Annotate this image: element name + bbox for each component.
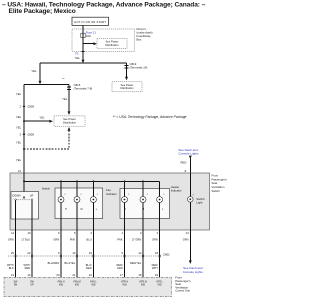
svg-text:8: 8 — [185, 169, 187, 173]
label Switch Light — [196, 197, 205, 205]
wire heater2 to box edge — [142, 217, 144, 230]
svg-text:(Terminals 7-8): (Terminals 7-8) — [74, 87, 93, 91]
wire W9 to dash lights — [189, 230, 192, 264]
svg-text:UP: UP — [30, 284, 34, 286]
svg-text:10A: 10A — [86, 34, 91, 38]
svg-text:C808: C808 — [27, 105, 34, 109]
fan bulb 2 — [74, 180, 83, 217]
svg-text:DOWN: DOWN — [13, 194, 21, 197]
svg-text:3: 3 — [157, 231, 159, 235]
svg-text:BLU/GRN: BLU/GRN — [48, 261, 60, 265]
label Fan Indicator — [106, 188, 117, 196]
wire fan1 to box edge — [60, 217, 62, 230]
svg-text:20: 20 — [56, 273, 60, 277]
label C815 (Terminals 7-8) — [74, 83, 93, 91]
svg-text:19: 19 — [155, 273, 159, 277]
svg-text:11: 11 — [11, 231, 14, 235]
switch light bulb — [188, 173, 195, 230]
svg-text:3: 3 — [19, 132, 21, 136]
connector C813 ticks — [125, 66, 129, 68]
arrow into power distribution — [125, 77, 128, 81]
svg-text:C808: C808 — [27, 132, 34, 136]
svg-text:WHT: WHT — [152, 266, 158, 270]
internal supply rail — [24, 180, 160, 182]
fan bulb 3 — [90, 180, 98, 217]
wire colour row 1 — [8, 238, 189, 242]
wire W2 below box — [31, 230, 33, 277]
svg-text:LT BLU: LT BLU — [22, 238, 31, 242]
reference: See Dash and Console Lights (bottom) — [183, 266, 204, 274]
label: From Passenger's Seat Ventilation Switch — [212, 173, 228, 193]
svg-text:M: M — [142, 209, 144, 211]
svg-text:GRN: GRN — [117, 266, 123, 270]
svg-text:See Power: See Power — [121, 83, 134, 87]
svg-text:18: 18 — [155, 251, 159, 255]
svg-text:Switch: Switch — [212, 189, 221, 193]
svg-text:IND: IND — [158, 284, 162, 286]
pin row at box exit — [11, 231, 189, 235]
svg-text:HTR L: HTR L — [156, 281, 163, 283]
svg-text:PNK: PNK — [117, 238, 123, 242]
svg-text:Light: Light — [196, 200, 202, 204]
terminal F1 tick — [81, 50, 84, 52]
svg-text:18: 18 — [138, 273, 142, 277]
heater indicator sub-box — [120, 189, 170, 219]
fan indicator sub-box — [55, 188, 103, 219]
svg-text:22: 22 — [27, 251, 31, 255]
svg-text:LT GRN: LT GRN — [132, 238, 141, 242]
svg-text:RED/YEL: RED/YEL — [130, 261, 142, 265]
svg-text:YEL: YEL — [75, 56, 81, 60]
bus wire 1 — [40, 62, 127, 64]
svg-text:HTR M: HTR M — [139, 281, 146, 283]
switch contact DOWN — [15, 199, 17, 219]
svg-text:FAN L: FAN L — [90, 280, 97, 283]
svg-text:DN: DN — [14, 284, 18, 286]
wire W5 below box — [92, 230, 94, 277]
svg-text:19: 19 — [89, 251, 93, 255]
svg-text:2: 2 — [19, 105, 21, 109]
wire W6 below box — [124, 230, 126, 277]
svg-text:UP: UP — [30, 194, 34, 197]
wire pin14 into switch common, junction — [23, 173, 25, 197]
fuse F21 symbol — [81, 33, 85, 38]
svg-text:6: 6 — [58, 231, 60, 235]
svg-text:GRN: GRN — [53, 238, 59, 242]
title text — [2, 1, 206, 15]
wire fuse output down to bus junction — [82, 51, 85, 63]
svg-text:25: 25 — [11, 251, 15, 255]
wire fan3 to box edge — [92, 217, 94, 230]
svg-text:12: 12 — [138, 251, 142, 255]
connector 2 C808 — [19, 105, 34, 109]
svg-text:BLK: BLK — [9, 266, 14, 270]
svg-text:IND: IND — [59, 284, 63, 286]
see power distribution box (inside fuse box) — [97, 38, 127, 48]
svg-text:YEL: YEL — [31, 69, 37, 73]
label C813 (Terminals 14) — [130, 62, 148, 70]
wire from dash lights down to pin 8 — [189, 156, 192, 173]
wire W7 below box — [142, 230, 144, 277]
svg-text:YEL: YEL — [16, 140, 22, 144]
connector C815 ticks — [67, 87, 71, 89]
svg-text:Console Lights: Console Lights — [178, 152, 199, 156]
svg-text:GRN: GRN — [183, 238, 189, 242]
svg-text:FAN H: FAN H — [58, 280, 65, 283]
junction with variant dashed wire — [23, 148, 25, 150]
label: Driver's (under-dash) Fuse/Relay Box — [137, 27, 153, 42]
svg-text:YEL: YEL — [16, 125, 22, 129]
bus wire 2 — [24, 83, 69, 85]
see power distribution box (right) — [112, 82, 142, 92]
svg-text:13: 13 — [186, 231, 190, 235]
svg-text:17: 17 — [120, 273, 124, 277]
svg-text:YEL: YEL — [16, 115, 22, 119]
svg-text:Indicator: Indicator — [171, 189, 182, 193]
svg-text:22: 22 — [89, 273, 93, 277]
svg-text:Elite Package; Mexico: Elite Package; Mexico — [9, 8, 76, 15]
switch common arrow — [23, 197, 25, 200]
svg-text:Switch: Switch — [42, 186, 51, 190]
front passenger's seat ventilation switch unit box — [10, 173, 210, 230]
svg-text:See Power: See Power — [63, 117, 76, 121]
svg-text:YEL: YEL — [39, 115, 45, 119]
svg-text:5: 5 — [74, 231, 76, 235]
wire heater3 to box edge — [159, 217, 161, 230]
svg-text:YEL: YEL — [16, 92, 22, 96]
wire W4 below box — [76, 230, 78, 277]
svg-text:YEL: YEL — [62, 97, 68, 101]
svg-text:PNK: PNK — [70, 238, 76, 242]
label: Front Passenger's Seat Ventilation Control Unit — [175, 276, 191, 293]
reference: See Dash and Console Lights (top right) — [178, 148, 199, 156]
switch lever — [17, 199, 32, 201]
wire W3 below box — [60, 230, 62, 277]
wire bus2 right drop to C815 — [68, 84, 70, 111]
variant dashed wire up-arrow into box — [68, 127, 71, 149]
fan bulb 1 — [58, 180, 67, 217]
switch sub-box — [11, 192, 39, 220]
svg-text:FAN M: FAN M — [73, 280, 80, 283]
svg-text:IND: IND — [122, 284, 126, 286]
wire W8 below box — [159, 230, 161, 277]
svg-text:Console Lights: Console Lights — [183, 270, 204, 274]
svg-text:14: 14 — [18, 169, 22, 173]
variant dashed wire horizontal — [24, 148, 69, 150]
junction to power distribution arrow — [23, 115, 53, 122]
svg-text:HTR H: HTR H — [121, 281, 128, 283]
label Heater Indicator — [171, 185, 182, 193]
wire switch DOWN to box edge — [15, 219, 17, 230]
svg-text:(Terminals 14): (Terminals 14) — [130, 66, 148, 70]
svg-text:HOT IN ON OR START: HOT IN ON OR START — [74, 20, 106, 24]
svg-text:2: 2 — [140, 231, 142, 235]
svg-text:IND: IND — [75, 284, 79, 286]
main left wire from bus2 down to unit — [23, 84, 25, 173]
svg-text:Distribution: Distribution — [63, 120, 77, 124]
svg-text:Control Unit: Control Unit — [175, 289, 190, 293]
svg-text:IND: IND — [91, 284, 95, 286]
svg-text:BLU: BLU — [87, 238, 92, 242]
svg-text:See Power: See Power — [106, 39, 119, 43]
driver's under-dash fuse/relay box (dashed) — [72, 29, 135, 51]
wire bus1 left drop — [39, 63, 42, 84]
svg-text:IND: IND — [141, 284, 145, 286]
svg-text:Box: Box — [137, 37, 142, 41]
svg-text:13: 13 — [11, 273, 15, 277]
wire fan2 to box edge — [76, 217, 78, 230]
svg-text:YEL: YEL — [16, 158, 22, 162]
svg-text:4: 4 — [90, 231, 92, 235]
wire heater1 to box edge — [124, 217, 126, 230]
pin row at control unit — [11, 273, 159, 277]
svg-text:**: ** — [62, 77, 65, 81]
wire W1 below box — [15, 230, 17, 277]
C801 terminal marks — [15, 255, 161, 258]
heater bulb 1 — [122, 180, 130, 217]
front passenger's seat ventilation control unit box (dashed) — [4, 277, 172, 296]
pin row above C801 — [11, 251, 159, 255]
svg-text:14: 14 — [27, 273, 31, 277]
svg-text:BLU/YEL: BLU/YEL — [64, 261, 75, 265]
wire from hot box to fuse 21 — [82, 25, 84, 33]
svg-text:GRN: GRN — [8, 238, 14, 242]
switch contact UP — [31, 199, 33, 219]
svg-text:Indicator: Indicator — [106, 192, 117, 196]
wire from fuse down to F1 terminal — [82, 38, 84, 52]
svg-text:10: 10 — [27, 231, 31, 235]
arrow into power distribution (center) — [68, 111, 71, 115]
svg-text:C801: C801 — [163, 252, 170, 256]
svg-text:1: 1 — [121, 231, 123, 235]
svg-text:6: 6 — [58, 251, 60, 255]
wire switch UP to box edge — [31, 219, 33, 230]
svg-text:RED: RED — [25, 266, 31, 270]
connector line C801 — [8, 252, 170, 256]
svg-text:RED: RED — [180, 161, 186, 165]
label Fuse 21 / 10A — [86, 31, 97, 38]
svg-text:Distribution: Distribution — [105, 43, 119, 47]
heater bulb 2 — [140, 180, 148, 217]
see power distribution box (center) — [54, 116, 85, 126]
wire colour row 2 — [7, 261, 158, 270]
wire bus1 right drop — [126, 63, 128, 77]
svg-text:Distribution: Distribution — [120, 86, 134, 90]
svg-text:RED: RED — [86, 266, 92, 270]
svg-text:** = USA: Technology Package,: ** = USA: Technology Package, Advance Pa… — [113, 115, 187, 119]
svg-text:M: M — [81, 209, 83, 211]
hot-in-on-or-start label box — [72, 17, 109, 25]
control unit internal labels — [14, 280, 164, 286]
svg-text:21: 21 — [72, 273, 76, 277]
heater bulb 3 — [157, 181, 165, 217]
connector 3 C808 — [19, 132, 34, 136]
svg-text:13: 13 — [72, 251, 76, 255]
svg-text:5: 5 — [121, 251, 123, 255]
svg-text:GRN: GRN — [152, 238, 158, 242]
arrow from fuse to see-power-distribution box — [83, 42, 97, 45]
